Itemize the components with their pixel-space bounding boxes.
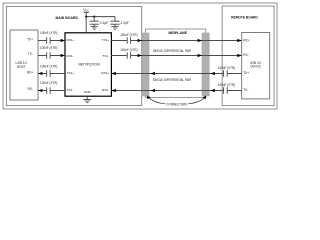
svg-text:TX+: TX+ [243, 71, 249, 75]
midplane box [146, 29, 206, 98]
svg-text:100nF (X7R): 100nF (X7R) [40, 81, 57, 85]
arrow into host RX+ [38, 72, 42, 75]
wire VCC to U1 [85, 17, 87, 33]
main board box [6, 7, 141, 106]
capacitor C8 100nF [127, 52, 130, 58]
svg-text:TX+: TX+ [27, 38, 33, 42]
capacitor C4 100nF [47, 52, 50, 58]
wire device TX+ across midplane to U1 RX2+ [111, 73, 241, 75]
capacitor C7 100nF [127, 37, 130, 43]
svg-text:RX+: RX+ [243, 38, 249, 42]
USB 3.0 host box [10, 30, 38, 100]
capacitor C1 0.1uF [90, 17, 99, 27]
svg-text:SINGLE DIFFERENTIAL PAIR: SINGLE DIFFERENTIAL PAIR [153, 49, 192, 53]
svg-text:REMOTE BOARD: REMOTE BOARD [231, 15, 257, 20]
svg-text:RX1-: RX1- [67, 54, 74, 58]
svg-text:TX2-: TX2- [67, 88, 74, 92]
wire U1 TX1- across midplane to device RX- [111, 55, 241, 57]
svg-text:RX+: RX+ [27, 70, 33, 74]
svg-text:2.2µF: 2.2µF [120, 21, 128, 25]
svg-text:SINGLE DIFFERENTIAL PAIR: SINGLE DIFFERENTIAL PAIR [153, 78, 192, 82]
wire U1 TX1+ across midplane to device RX+ [111, 40, 241, 42]
junction dot [93, 16, 95, 18]
svg-text:100nF (X7R): 100nF (X7R) [40, 46, 57, 50]
capacitor C9 100nF [224, 70, 228, 76]
capacitor C10 100nF [224, 87, 228, 93]
redriver U1 box [65, 33, 111, 96]
arrow into connector J2 [198, 54, 202, 57]
svg-text:MIDPLANE: MIDPLANE [168, 30, 187, 35]
USB 3.0 device box [242, 33, 270, 99]
svg-text:TX1+: TX1+ [102, 38, 110, 42]
arrow into host RX- [38, 89, 42, 92]
arrow into connector J2 [211, 89, 215, 92]
svg-text:CONNECTORS: CONNECTORS [166, 103, 188, 107]
junction dot [85, 16, 87, 18]
capacitor C2 2.2uF [110, 17, 119, 27]
host label [16, 61, 27, 69]
connectors callout right curve [188, 98, 204, 104]
wire U1 TX2+ to host RX+ [38, 73, 65, 75]
connector J1 (left grey bar) [142, 33, 149, 96]
svg-text:100nF (X7R): 100nF (X7R) [218, 83, 235, 87]
outer frame [3, 3, 277, 109]
svg-text:RX2-: RX2- [102, 88, 109, 92]
arrow into U1 RX1- [61, 54, 65, 57]
svg-text:TX-: TX- [28, 52, 33, 56]
svg-text:TX2+: TX2+ [67, 71, 75, 75]
svg-text:HOST: HOST [17, 65, 26, 69]
capacitor C3 100nF [47, 37, 50, 43]
svg-text:100nF (X7R): 100nF (X7R) [120, 48, 137, 52]
svg-text:TX1-: TX1- [102, 54, 109, 58]
arrow into U1 RX2- [111, 89, 115, 92]
svg-text:RX-: RX- [28, 87, 34, 91]
svg-text:VCC: VCC [83, 8, 89, 13]
arrow into connector J1 [151, 72, 155, 75]
connectors callout left curve [149, 98, 166, 104]
wire TX- host to U1 [38, 55, 65, 57]
VCC symbol bar [84, 12, 89, 16]
arrow into device RX- [237, 54, 241, 57]
ground for C2 [111, 27, 118, 30]
arrow into U1 RX1+ [61, 39, 65, 42]
capacitor C5 100nF [47, 70, 50, 76]
connectors callout right arrowhead [203, 96, 207, 100]
svg-text:GND: GND [84, 90, 92, 94]
ground below U1 [83, 96, 91, 102]
svg-text:100nF (X7R): 100nF (X7R) [40, 64, 57, 68]
svg-text:RX1+: RX1+ [67, 38, 75, 42]
arrow into device RX+ [237, 39, 241, 42]
arrow into connector J1 [138, 39, 142, 42]
svg-text:DEVICE: DEVICE [251, 65, 262, 69]
svg-text:100nF (X7R): 100nF (X7R) [218, 66, 235, 70]
arrow into connector J2 [211, 72, 215, 75]
svg-text:100nF (X7R): 100nF (X7R) [40, 31, 57, 35]
ground for C1 [91, 27, 98, 30]
remote board box [222, 6, 274, 106]
arrow into connector J1 [151, 89, 155, 92]
arrow into U1 RX2+ [111, 72, 115, 75]
arrow into connector J2 [198, 39, 202, 42]
svg-text:NB7VPQ701M: NB7VPQ701M [78, 63, 100, 67]
connectors callout left arrowhead [147, 96, 151, 100]
svg-text:100nF (X7R): 100nF (X7R) [120, 33, 137, 37]
device label [250, 61, 261, 69]
connector J2 (right grey bar) [202, 33, 209, 96]
capacitor C6 100nF [47, 87, 50, 93]
arrow into connector J1 [138, 54, 142, 57]
svg-text:MAIN BOARD: MAIN BOARD [55, 15, 78, 20]
wire U1 TX2- to host RX- [38, 90, 65, 92]
wire TX+ host to U1 [38, 40, 65, 42]
svg-text:RX-: RX- [243, 53, 249, 57]
svg-text:RX2+: RX2+ [101, 71, 109, 75]
svg-text:0.1µF: 0.1µF [100, 21, 109, 25]
VCC rail wire [86, 16, 115, 18]
svg-text:TX-: TX- [243, 88, 248, 92]
wire device TX- across midplane to U1 RX2- [111, 90, 241, 92]
